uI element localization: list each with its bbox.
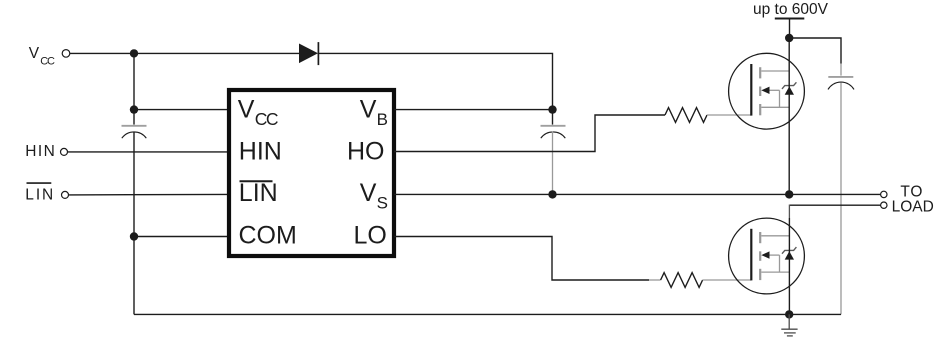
junction Vcc rail / decoupling branch <box>130 49 138 57</box>
terminal HIN <box>61 148 68 155</box>
transistor Q1 high-side MOSFET <box>729 53 805 129</box>
wire R1 to Q1 gate (grey lead) <box>707 114 751 116</box>
wire Vcc terminal to diode anode <box>70 52 299 54</box>
capacitor C3 bus top lead (grey) <box>840 64 842 76</box>
wire R2 left lead (grey) <box>649 279 661 281</box>
junction Vcc pin node <box>130 105 138 113</box>
capacitor C3 bottom plate (curved) <box>828 82 854 89</box>
svg-text:HO: HO <box>347 138 385 166</box>
svg-text:LO: LO <box>354 221 387 249</box>
wire Vcc branch down <box>133 53 135 109</box>
node Vcc input label <box>29 45 55 67</box>
junction HV rail <box>785 34 793 42</box>
terminal Vcc <box>62 50 70 58</box>
svg-text:V: V <box>360 95 377 123</box>
capacitor C1 top lead <box>133 110 135 125</box>
terminal LOAD <box>881 202 887 208</box>
wire ground rail <box>134 313 841 315</box>
svg-text:CC: CC <box>255 109 278 129</box>
diode Q2 body zener bar <box>782 247 796 254</box>
wire LIN terminal to LIN pin <box>69 193 229 196</box>
wire LO pin to gate resistor <box>394 237 649 281</box>
junction VS bootstrap return <box>548 190 556 198</box>
pin label LIN (overline) <box>239 179 278 207</box>
wire switch node to TO terminal <box>789 193 880 195</box>
svg-text:V: V <box>360 179 377 207</box>
svg-text:HIN: HIN <box>239 138 282 166</box>
wire COM node down to ground rail <box>133 237 135 315</box>
resistor R2 low-side gate <box>661 273 703 288</box>
wire VS pin to switch node <box>394 193 789 195</box>
diode D1 cathode bar <box>317 42 319 65</box>
svg-text:S: S <box>377 194 388 213</box>
capacitor C1 top plate <box>122 125 147 127</box>
svg-text:CC: CC <box>40 55 55 67</box>
transistor Q2 low-side MOSFET <box>729 218 805 294</box>
capacitor C3 bottom lead to ground rail <box>840 83 842 315</box>
wire rail bar to junction <box>789 19 791 39</box>
wire Q2 drain-source vertical <box>788 205 790 219</box>
capacitor C1 bottom lead to COM <box>133 132 135 237</box>
junction switch node <box>785 190 793 198</box>
wire to COM pin <box>134 236 229 238</box>
terminal LIN <box>62 191 69 198</box>
svg-text:HIN: HIN <box>25 143 56 160</box>
terminal TO <box>881 191 887 197</box>
wire HV rail to bus capacitor <box>789 38 841 64</box>
svg-text:COM: COM <box>239 221 297 249</box>
resistor R1 high-side gate <box>665 108 707 123</box>
junction ground node <box>785 310 793 318</box>
svg-text:B: B <box>377 110 388 129</box>
power rail terminal bar <box>775 18 805 20</box>
wire to Vcc pin <box>134 109 229 111</box>
svg-text:LIN: LIN <box>239 179 278 207</box>
svg-text:LOAD: LOAD <box>892 199 934 216</box>
capacitor C2 bottom lead to VS <box>552 132 554 195</box>
svg-text:V: V <box>29 45 40 62</box>
wire Q2 drain to LOAD terminal <box>789 204 880 206</box>
diode Q1 body zener bar <box>782 82 796 89</box>
wire HIN terminal to HIN pin <box>68 151 229 153</box>
pin label VB <box>360 95 388 129</box>
op-amp U1 driver IC body <box>229 90 394 256</box>
capacitor C3 top plate <box>828 76 853 78</box>
wire diode cathode to VB node <box>318 53 552 109</box>
svg-text:LIN: LIN <box>25 186 55 203</box>
capacitor C1 bottom plate (curved) <box>122 132 147 138</box>
wire R2 to Q2 gate (grey lead) <box>703 279 752 281</box>
capacitor C2 top plate <box>541 125 566 127</box>
pin label VS <box>360 179 388 213</box>
capacitor C2 bootstrap top lead <box>552 110 554 125</box>
wire HV rail through Q1 drain-source <box>788 38 790 194</box>
pin label VCC <box>238 95 278 129</box>
svg-text:V: V <box>238 95 255 123</box>
ground <box>781 314 797 336</box>
node LIN input label (with overline) <box>25 183 55 203</box>
diode Q2 body triangle <box>785 251 794 259</box>
capacitor C2 bottom plate (curved) <box>541 132 566 138</box>
node TO LOAD label <box>892 183 934 215</box>
junction VB node <box>548 105 556 113</box>
wire HO pin to gate resistor <box>394 115 665 152</box>
junction COM node <box>130 232 138 240</box>
diode Q1 body triangle <box>785 86 794 94</box>
diode D1 bootstrap (anode triangle) <box>299 44 318 64</box>
svg-text:up to 600V: up to 600V <box>753 1 829 18</box>
wire VB pin to bootstrap node <box>394 109 553 111</box>
